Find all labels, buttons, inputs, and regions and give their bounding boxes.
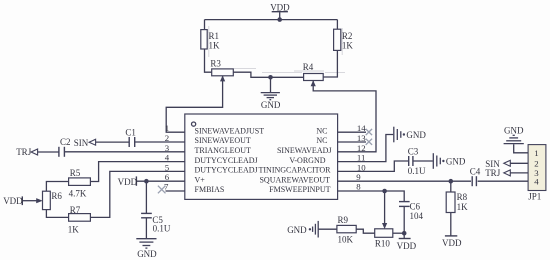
wire R5 left to R6 top <box>46 182 68 192</box>
power VDD R8 bar <box>445 235 457 237</box>
wire JP1 ground to pin 1 <box>514 144 528 153</box>
ground below node A <box>261 93 280 100</box>
svg-text:0.1U: 0.1U <box>408 166 426 176</box>
junction node C <box>402 231 407 236</box>
resistor R6 <box>43 191 51 209</box>
svg-text:R7: R7 <box>70 205 81 215</box>
svg-text:7: 7 <box>164 181 169 191</box>
svg-text:C2: C2 <box>60 137 71 147</box>
wire pin 9 to C4 <box>338 180 471 182</box>
port arrow TRJ at JP1 <box>504 170 511 176</box>
svg-text:SINEWAVEADJUST: SINEWAVEADJUST <box>195 126 265 135</box>
wire top rail <box>205 19 338 21</box>
junction node B pin 9 <box>449 179 454 184</box>
pin 1 indicator circle <box>192 122 196 126</box>
junction pin 6 VDD <box>144 179 149 184</box>
wire C6 to node C <box>403 207 405 234</box>
svg-text:SIN: SIN <box>74 138 89 148</box>
svg-text:DUTYCYCLEADJ: DUTYCYCLEADJ <box>195 156 258 165</box>
svg-text:NC: NC <box>316 126 327 135</box>
no-connect X pin 7 <box>158 186 166 194</box>
svg-text:2: 2 <box>165 133 169 143</box>
pin 14 stub <box>338 131 366 133</box>
wire pin 10 to C3 <box>338 161 409 171</box>
wire pin 5 to R7 <box>90 171 184 217</box>
wire SIN port to JP1 pin 2 <box>510 162 528 164</box>
wire R10 to node C <box>393 232 404 234</box>
capacitor C6 <box>399 202 410 207</box>
svg-text:TRIANGLEOUT: TRIANGLEOUT <box>195 146 252 155</box>
svg-text:1K: 1K <box>342 40 354 50</box>
svg-text:C4: C4 <box>470 167 481 177</box>
resistor R2 <box>334 29 341 50</box>
svg-text:1K: 1K <box>68 225 80 235</box>
svg-text:104: 104 <box>410 211 424 221</box>
svg-text:R3: R3 <box>210 58 221 68</box>
svg-text:2: 2 <box>534 158 538 168</box>
svg-text:10: 10 <box>357 162 366 172</box>
svg-text:0.1U: 0.1U <box>153 223 171 233</box>
svg-text:C3: C3 <box>408 147 419 157</box>
capacitor C2 <box>59 147 65 157</box>
svg-text:VDD: VDD <box>3 196 23 206</box>
svg-text:TRJ: TRJ <box>16 147 32 157</box>
resistor R1 <box>201 30 207 49</box>
svg-text:GND: GND <box>504 126 524 136</box>
op-amp U1 IC body <box>185 114 338 199</box>
wire C2 to TRJ port <box>37 151 59 153</box>
svg-text:R5: R5 <box>70 168 81 178</box>
wire R3 right to node A <box>233 72 303 77</box>
capacitor C1 <box>129 137 135 147</box>
svg-text:GND: GND <box>287 225 307 235</box>
wire R4 right to R2 bottom <box>323 50 337 77</box>
port arrow SIN at JP1 <box>504 160 511 166</box>
wire rail to R1 <box>204 20 206 30</box>
svg-text:5: 5 <box>165 162 170 172</box>
resistor R10 <box>375 229 393 238</box>
svg-text:R9: R9 <box>338 215 349 225</box>
svg-text:1: 1 <box>165 123 169 133</box>
junction pin 8 <box>382 189 387 194</box>
svg-text:9: 9 <box>356 172 361 182</box>
svg-text:V-ORGND: V-ORGND <box>289 156 325 165</box>
svg-text:13: 13 <box>357 133 366 143</box>
wire node C to VDD <box>403 233 405 238</box>
wire R3 wiper to pin 1 <box>166 76 222 132</box>
svg-text:R4: R4 <box>303 62 314 72</box>
resistor R4 <box>304 74 324 81</box>
wire R4 wiper to pin 12 <box>313 81 376 152</box>
wire pin 11 to ground <box>338 135 394 162</box>
no-connect X pin 13 <box>366 139 372 145</box>
wire ground to R9 <box>318 228 337 230</box>
power VDD top <box>272 12 288 20</box>
svg-text:R6: R6 <box>51 191 62 201</box>
power VDD pin6 bar <box>135 176 137 185</box>
svg-text:R10: R10 <box>375 239 391 249</box>
svg-text:11: 11 <box>357 153 365 163</box>
svg-text:TRJ: TRJ <box>485 168 501 178</box>
resistor R3 <box>212 69 234 76</box>
arrow R4 wiper <box>311 80 316 86</box>
wire R1 to R3 <box>205 49 212 72</box>
ground below C5 <box>136 239 156 248</box>
wire R8 to VDD <box>450 213 452 236</box>
wire R2 top to rail <box>336 20 338 30</box>
ground at R9 (rotated mirrored) <box>313 221 319 238</box>
svg-text:4.7K: 4.7K <box>69 188 87 198</box>
capacitor C4 <box>472 176 476 186</box>
wire pin8 node to R10 wiper <box>384 191 386 223</box>
svg-text:VDD: VDD <box>270 2 290 12</box>
arrow R10 wiper <box>382 223 387 229</box>
svg-text:VDD: VDD <box>397 241 417 251</box>
port arrow TRJ left <box>31 149 37 155</box>
resistor R5 <box>69 178 91 186</box>
svg-text:4: 4 <box>534 177 539 187</box>
svg-text:V+: V+ <box>195 175 206 184</box>
svg-text:GND: GND <box>446 157 466 167</box>
svg-text:R1: R1 <box>209 31 220 41</box>
svg-text:3: 3 <box>165 143 170 153</box>
svg-text:GND: GND <box>261 100 281 110</box>
arrow R3 wiper <box>220 75 225 81</box>
svg-text:JP1: JP1 <box>528 192 541 202</box>
svg-text:GND: GND <box>137 249 157 259</box>
wire C3 to ground <box>413 160 433 162</box>
svg-text:C1: C1 <box>125 128 136 138</box>
wire pin 4 to R5 <box>90 162 184 182</box>
wire C1 to SIN port <box>95 141 129 143</box>
svg-text:4: 4 <box>165 153 170 163</box>
wire VDD to R6 wiper <box>23 200 37 202</box>
wire node A to ground <box>270 77 272 92</box>
resistor R7 <box>69 214 91 222</box>
no-connect X pin 14 <box>366 129 372 135</box>
svg-text:VDD: VDD <box>442 238 462 248</box>
svg-text:FMSWEEPINPUT: FMSWEEPINPUT <box>269 185 330 194</box>
ghost guide lines <box>209 26 345 72</box>
svg-text:14: 14 <box>357 123 366 133</box>
svg-text:SINEWAVEADJ: SINEWAVEADJ <box>277 146 332 155</box>
ground at pin 11 (rotated) <box>394 127 401 143</box>
svg-text:TININGCAPACITOR: TININGCAPACITOR <box>258 166 331 175</box>
arrow R6 wiper <box>36 198 43 203</box>
wire pin6 node to C5 <box>145 181 147 213</box>
connector JP1 <box>528 145 546 191</box>
pin 7 stub <box>166 190 185 192</box>
svg-text:C6: C6 <box>410 201 421 211</box>
resistor R8 <box>446 192 455 213</box>
wire node B to R8 <box>450 181 452 192</box>
power VDD R6 bar <box>21 196 23 205</box>
port arrow SIN left <box>89 139 96 145</box>
wire pin 8 to C6 <box>338 191 405 201</box>
junction node A <box>268 75 273 80</box>
ground above JP1 pin 1 (inverted) <box>504 135 524 143</box>
svg-text:VDD: VDD <box>118 177 138 187</box>
ground at C3 (rotated) <box>433 153 440 169</box>
svg-text:NC: NC <box>316 136 327 145</box>
svg-text:12: 12 <box>357 143 366 153</box>
pin 13 stub <box>338 141 366 143</box>
svg-text:8: 8 <box>356 182 361 192</box>
wire R6 bottom to R7 left <box>46 210 68 218</box>
svg-text:DUTYCYCLEADJ: DUTYCYCLEADJ <box>195 166 258 175</box>
svg-text:SQUAREWAVEOUT: SQUAREWAVEOUT <box>259 175 330 184</box>
wire C4 to JP1 pin 4 <box>478 180 528 182</box>
svg-text:10K: 10K <box>338 234 354 244</box>
svg-text:R8: R8 <box>457 192 468 202</box>
svg-text:GND: GND <box>406 130 426 140</box>
svg-text:1: 1 <box>534 148 538 158</box>
svg-text:SINEWAVEOUT: SINEWAVEOUT <box>195 136 251 145</box>
wire pin 2 to C1 <box>135 141 185 143</box>
svg-text:1K: 1K <box>457 202 469 212</box>
junction VDD rail <box>277 17 282 22</box>
power VDD R10 bar <box>399 238 411 240</box>
svg-text:1K: 1K <box>209 41 221 51</box>
capacitor C3 <box>409 156 413 166</box>
wire pin 3 to C2 <box>65 151 185 153</box>
wire TRJ port to JP1 pin 3 <box>510 172 528 174</box>
capacitor C5 <box>141 213 152 217</box>
svg-text:FMBIAS: FMBIAS <box>195 185 225 194</box>
resistor R9 <box>337 225 356 232</box>
wire R9 to R10 <box>356 229 375 233</box>
wire C5 to ground <box>145 218 147 238</box>
wire pin 6 to VDD <box>137 180 185 182</box>
